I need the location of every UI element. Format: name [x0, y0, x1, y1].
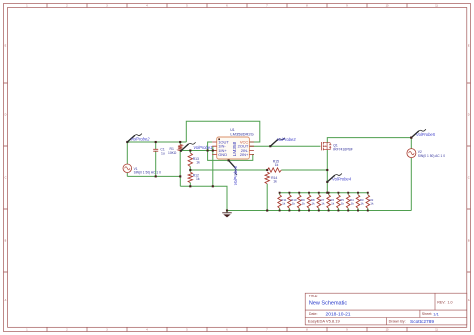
resistor R14	[265, 172, 269, 184]
wire: R15 to source column	[281, 169, 327, 171]
svg-text:Sheet:: Sheet:	[422, 312, 432, 316]
svg-text:1k: 1k	[361, 202, 365, 206]
svg-text:IRF7416PBF: IRF7416PBF	[333, 147, 353, 151]
wire: V2 bottom lead	[410, 158, 412, 211]
svg-text:SIN(0 1 50) AC 1 0: SIN(0 1 50) AC 1 0	[134, 170, 161, 174]
svg-text:EasyEDA V5.8.19: EasyEDA V5.8.19	[308, 319, 341, 324]
resistor R6	[327, 195, 331, 209]
probe VolProbe4	[326, 181, 328, 183]
wire: V1 bottom lead	[126, 173, 128, 177]
svg-text:1k: 1k	[370, 202, 374, 206]
svg-text:C: C	[5, 177, 7, 180]
svg-text:1k: 1k	[331, 202, 335, 206]
wire: source down to bank rail	[326, 150, 328, 193]
svg-text:1k: 1k	[196, 177, 200, 181]
wire: V1 top lead	[126, 142, 128, 164]
probe VolProbe6 (rotated)	[228, 159, 230, 161]
resistor R2	[366, 195, 370, 209]
svg-text:1k: 1k	[341, 202, 345, 206]
svg-text:VolProbe3: VolProbe3	[277, 137, 297, 142]
wire: loop over op-amp to VCC	[186, 121, 259, 142]
svg-text:1k: 1k	[351, 202, 355, 206]
wire: V2 top lead	[410, 138, 412, 149]
frame zone ticks top/bottom	[47, 4, 407, 332]
wire: top rail node A	[127, 141, 186, 143]
transistor Q1 IRF7416 (P-MOSFET)	[322, 142, 332, 150]
svg-text:2IN+: 2IN+	[240, 152, 249, 157]
svg-text:1k: 1k	[302, 202, 306, 206]
svg-text:SIN(0 1 50) AC 1 0: SIN(0 1 50) AC 1 0	[418, 154, 445, 158]
resistor R12	[188, 172, 192, 183]
wire: feedback 1OUT to 2IN+	[208, 142, 254, 160]
wire: drain to top-right	[327, 138, 411, 143]
voltage source V1	[123, 164, 132, 173]
resistor R10	[288, 195, 292, 209]
svg-text:Date:: Date:	[309, 312, 318, 316]
wire: GND-pin vertical	[212, 146, 214, 186]
resistor R11	[278, 195, 282, 209]
resistor R1	[178, 145, 182, 151]
svg-text:10KΩ: 10KΩ	[168, 151, 177, 155]
title block	[305, 293, 467, 325]
svg-text:VolProbe4: VolProbe4	[332, 176, 352, 181]
svg-text:1u: 1u	[161, 151, 165, 155]
voltage source V2	[407, 149, 416, 158]
svg-text:1k: 1k	[321, 202, 325, 206]
svg-text:LM358: LM358	[232, 141, 238, 156]
svg-text:Scottc2789: Scottc2789	[410, 319, 434, 325]
junction dots	[155, 141, 157, 143]
wire: bank bottom rail	[227, 210, 411, 212]
svg-text:VolProbe5: VolProbe5	[416, 132, 436, 137]
svg-text:REV: 1.0: REV: 1.0	[437, 300, 452, 304]
svg-text:C: C	[468, 177, 470, 180]
resistor R4	[346, 195, 350, 209]
wire: mid wire R13/R12 node to R15	[190, 169, 267, 171]
svg-text:1k: 1k	[196, 161, 200, 165]
svg-text:VolProbe1: VolProbe1	[193, 145, 212, 150]
wire: lower wire to ground	[180, 186, 227, 210]
ground	[226, 211, 228, 213]
wire: R14 bottom lead	[266, 184, 268, 211]
wire: R1 branch + down to B	[179, 142, 181, 176]
resistor R15	[267, 168, 281, 172]
probe VolProbe2	[126, 141, 128, 143]
svg-text:1k: 1k	[282, 202, 286, 206]
wire: bank top rail	[280, 192, 368, 194]
resistor R7	[317, 195, 321, 209]
wire: C1 branch	[155, 142, 157, 176]
op-amp U1 LM358	[217, 137, 250, 159]
probe VolProbe3	[269, 145, 271, 147]
frame zone ticks left/right	[4, 83, 471, 272]
svg-text:TITLE:: TITLE:	[309, 294, 318, 298]
wire: bottom wire B	[127, 176, 180, 186]
resistor R9	[297, 195, 301, 209]
svg-text:New Schematic: New Schematic	[309, 300, 347, 306]
svg-text:GND: GND	[218, 152, 227, 157]
svg-text:VolProbe6: VolProbe6	[233, 165, 238, 185]
capacitor C1	[153, 149, 158, 151]
svg-text:1k: 1k	[312, 202, 316, 206]
resistor R8	[307, 195, 311, 209]
wire: 2OUT to gate	[249, 145, 320, 147]
probe VolProbe5	[410, 137, 412, 139]
resistor R5	[337, 195, 341, 209]
svg-text:1k: 1k	[292, 202, 296, 206]
probe VolProbe1	[180, 150, 182, 152]
svg-text:1/1: 1/1	[433, 311, 439, 316]
svg-text:2018-10-21: 2018-10-21	[326, 311, 351, 317]
svg-text:VolProbe2: VolProbe2	[131, 137, 151, 142]
resistor R13	[188, 153, 192, 167]
svg-text:1k: 1k	[275, 163, 279, 167]
svg-text:D: D	[468, 114, 470, 117]
svg-text:Drawn By:: Drawn By:	[389, 320, 406, 324]
svg-text:LM358DR2G: LM358DR2G	[230, 132, 253, 137]
svg-text:1k: 1k	[273, 180, 277, 184]
wire: 1IN+ net	[180, 150, 217, 152]
svg-text:D: D	[5, 114, 7, 117]
resistor R3	[356, 195, 360, 209]
